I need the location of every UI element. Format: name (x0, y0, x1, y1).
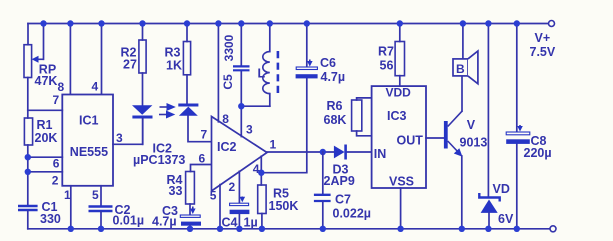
resistor R4 (186, 172, 195, 205)
resistor R2 (139, 40, 146, 73)
wire LC node (241, 105, 269, 107)
svg-text:33: 33 (169, 184, 183, 198)
wire R2 column (142, 24, 144, 41)
speaker B (453, 51, 478, 84)
wire IC3 VSS to rail (400, 188, 402, 229)
svg-text:6: 6 (199, 152, 206, 166)
wire speaker column (462, 24, 464, 59)
svg-text:2AP9: 2AP9 (324, 174, 355, 188)
resistor R6 (352, 100, 362, 131)
svg-text:150K: 150K (269, 199, 299, 213)
svg-text:4.7µ: 4.7µ (321, 70, 346, 84)
diode D3 (334, 145, 346, 160)
svg-text:3: 3 (246, 123, 253, 137)
capacitor C5 (233, 66, 250, 70)
wire R1 to C1 (27, 145, 29, 205)
svg-text:IC2: IC2 (217, 140, 237, 154)
node ground terminal (550, 226, 556, 232)
svg-text:0.022µ: 0.022µ (333, 207, 371, 221)
capacitor C8 (electrolytic) (506, 125, 530, 144)
inductor L (263, 52, 270, 94)
svg-text:1µ: 1µ (244, 216, 258, 230)
svg-text:9013: 9013 (460, 136, 488, 150)
svg-text:2: 2 (229, 180, 236, 194)
junction dots bottom rail (68, 226, 520, 232)
capacitor C5 column wire (240, 24, 242, 137)
wire IC2 pin5 column (219, 185, 221, 229)
zener diode VD (479, 193, 499, 213)
wire R4 to C3 (189, 204, 191, 215)
svg-text:220µ: 220µ (524, 146, 552, 160)
transistor V (9013) (444, 111, 463, 157)
wire IC1 pin8 column (69, 24, 71, 95)
svg-text:1: 1 (64, 188, 71, 202)
svg-text:C6: C6 (320, 56, 336, 70)
wire RP wiper column (43, 24, 45, 60)
wire R7 column (399, 24, 401, 42)
svg-text:VSS: VSS (389, 174, 414, 188)
wire IC2 pin8 column (217, 24, 219, 122)
svg-text:IN: IN (374, 147, 387, 161)
wire D1 to pin3 corner (142, 119, 144, 145)
wire C4 to rail (238, 214, 240, 229)
junction dots top rail (40, 20, 520, 26)
wire IC1 pin5 to C2 (100, 186, 102, 205)
node pin4 junction (258, 170, 264, 176)
svg-text:R3: R3 (165, 46, 181, 60)
svg-text:3: 3 (116, 131, 123, 145)
wire C7 to rail (322, 202, 324, 229)
svg-text:V: V (467, 118, 476, 132)
capacitor C3 (electrolytic) (180, 207, 201, 226)
IC3 box (372, 86, 426, 188)
wire IC2 pin6 (191, 165, 212, 172)
LED D1 (132, 105, 153, 117)
capacitor C1 (18, 206, 38, 210)
svg-text:27: 27 (123, 58, 137, 72)
wire IC1 pin6 (28, 156, 63, 158)
wire R7 to IC3 VDD (399, 76, 401, 86)
wire left rail top segment (27, 24, 29, 45)
capacitor C2 (89, 207, 113, 212)
potentiometer RP (24, 45, 44, 78)
svg-text:IC1: IC1 (79, 114, 99, 128)
wire L column top (269, 24, 271, 52)
node V+ terminal (549, 21, 555, 27)
svg-text:0.01µ: 0.01µ (113, 214, 145, 228)
svg-text:3300: 3300 (222, 34, 236, 61)
wire bottom rail (28, 228, 550, 230)
svg-text:4.7µ: 4.7µ (152, 215, 177, 229)
photodiode D2 (178, 105, 198, 116)
wire R2 to D1 (142, 73, 144, 105)
svg-text:5: 5 (92, 188, 99, 202)
svg-text:6V: 6V (498, 212, 514, 226)
wire IC1 pin7 (28, 109, 63, 111)
svg-text:IC3: IC3 (387, 109, 407, 123)
capacitor C4 (electrolytic) (230, 197, 250, 215)
svg-text:68K: 68K (324, 113, 347, 127)
IR arrows (159, 103, 176, 119)
wire IC3 OUT to transistor base (426, 137, 444, 139)
wire R3 column (186, 24, 188, 42)
op-amp IC2 triangle (212, 117, 268, 192)
svg-text:B: B (456, 62, 465, 76)
wire IC1 pin3 (113, 118, 143, 145)
resistor R3 (183, 42, 190, 75)
svg-text:µPC1373: µPC1373 (133, 153, 185, 167)
wire top rail (28, 23, 548, 25)
wire RP to R1 (27, 78, 29, 119)
wire zener to rail (488, 213, 490, 229)
svg-text:5: 5 (210, 189, 217, 203)
capacitor C7 (314, 195, 331, 201)
wire emitter to rail (461, 156, 463, 229)
svg-text:R1: R1 (37, 118, 53, 132)
wire D2 to IC2 pin7 (188, 116, 212, 142)
svg-text:8: 8 (58, 80, 65, 94)
wire collector to speaker (461, 76, 463, 111)
svg-text:V+: V+ (535, 31, 551, 45)
svg-text:2: 2 (52, 174, 59, 188)
svg-text:C5: C5 (221, 74, 235, 90)
wire IC1 pin4 column (101, 24, 103, 95)
svg-text:4: 4 (92, 80, 99, 94)
svg-text:1K: 1K (166, 59, 182, 73)
wire L column bottom (269, 94, 271, 107)
wire R6 bottom lead (357, 131, 372, 136)
svg-text:7: 7 (53, 93, 60, 107)
wire IC2 output to IC3 IN (267, 151, 372, 153)
svg-text:OUT: OUT (397, 133, 424, 147)
wire C3 to rail (189, 226, 191, 229)
svg-text:C7: C7 (335, 193, 351, 207)
node output/C7 junction (320, 149, 326, 155)
svg-text:C4: C4 (222, 216, 238, 230)
wire R5 to rail (261, 214, 263, 229)
inductor core dashes (277, 51, 280, 95)
wire R6 top lead (357, 98, 372, 100)
wire R3 to D2 (186, 75, 188, 104)
svg-text:6: 6 (53, 157, 60, 171)
wire IC2 pin2 column (238, 171, 240, 203)
wire IC1 pin1 to rail (70, 186, 72, 229)
wire zener column (487, 24, 489, 198)
wire C8 column (516, 24, 518, 229)
wire C1 to bottom rail (27, 211, 29, 229)
svg-text:20K: 20K (35, 131, 58, 145)
svg-text:VDD: VDD (386, 86, 412, 100)
svg-text:47K: 47K (35, 74, 58, 88)
op-amp IC1 box (62, 95, 113, 186)
resistor R7 (395, 42, 404, 76)
wire C7 column (322, 152, 324, 194)
capacitor C6 (electrolytic) (296, 60, 318, 79)
svg-text:8: 8 (222, 112, 229, 126)
svg-text:VD: VD (493, 182, 510, 196)
svg-text:56: 56 (380, 59, 394, 73)
resistor R5 (258, 185, 266, 214)
wire IC2 pin4 column (260, 156, 262, 185)
resistor R1 (24, 118, 32, 145)
wire C2 to rail (100, 212, 102, 229)
wire IC1 pin2 (28, 171, 63, 173)
svg-text:7: 7 (201, 128, 208, 142)
wire C6 column (261, 24, 307, 173)
node LC junction (238, 103, 244, 109)
svg-text:330: 330 (40, 212, 61, 226)
svg-text:NE555: NE555 (70, 145, 108, 159)
svg-text:R6: R6 (327, 99, 343, 113)
junction dots left rail (25, 154, 31, 175)
svg-text:1: 1 (270, 138, 277, 152)
svg-text:R7: R7 (378, 45, 394, 59)
svg-text:L: L (258, 67, 266, 81)
svg-text:7.5V: 7.5V (530, 45, 556, 59)
